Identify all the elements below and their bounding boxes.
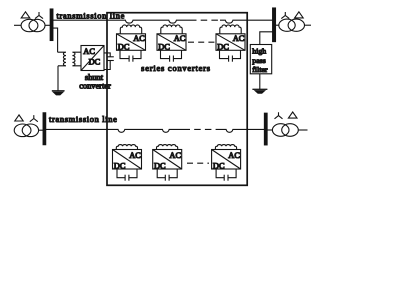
shunt converter DC-link capacitor <box>104 53 114 70</box>
node bottom-left sending bus area <box>14 113 45 145</box>
delta winding symbol (bottom-left) <box>15 115 23 121</box>
svg-text:AC: AC <box>233 34 245 43</box>
delta winding symbol (top-right) <box>295 12 304 18</box>
series converter C2 coupling coil <box>161 25 182 34</box>
transformer T1 (top-left, two overlapping circles) <box>21 19 38 31</box>
high pass filter box <box>250 45 271 75</box>
svg-text:DC: DC <box>217 43 229 52</box>
svg-text:DC: DC <box>89 58 101 67</box>
svg-text:DC: DC <box>213 161 225 170</box>
bus bar (bottom-left) <box>43 113 46 145</box>
wire bus to transformer T2 <box>276 24 280 26</box>
svg-text:transmission line: transmission line <box>49 115 118 124</box>
svg-text:DC: DC <box>154 161 166 170</box>
bus bar (bottom-right) <box>264 113 267 145</box>
svg-text:AC: AC <box>174 34 186 43</box>
series converter C3 AC/DC box <box>216 34 245 52</box>
svg-text:DC: DC <box>114 161 126 170</box>
bus bar (top-left) <box>50 9 53 41</box>
wire bus to transformer T4 <box>267 129 272 131</box>
series converter C3 coupling coil <box>220 25 241 34</box>
wye winding symbol (bottom-left) <box>30 115 38 122</box>
series converter C1 AC/DC box <box>117 34 146 52</box>
wire stub right of transformer T2 <box>305 24 312 26</box>
wire transformer T3 to bus <box>39 129 44 131</box>
series converter C2 AC/DC box <box>157 34 186 52</box>
shunt transformer windings <box>58 52 81 66</box>
wire: bottom transmission line with coupling dips and dashed break <box>46 129 265 132</box>
series converter C2 DC capacitor <box>161 50 182 61</box>
svg-text:filter: filter <box>252 65 268 74</box>
svg-text:pass: pass <box>252 56 265 65</box>
delta winding symbol (bottom-right) <box>288 112 297 118</box>
series converter B1 coupling coil <box>116 145 137 150</box>
svg-text:series converters: series converters <box>141 64 211 73</box>
wire transformer T1 to bus <box>45 24 50 26</box>
bus bar (top-right) <box>273 8 276 42</box>
series converter C3 DC capacitor <box>220 50 241 61</box>
wire: shunt tap from left bus <box>53 28 58 52</box>
svg-text:AC: AC <box>169 151 181 160</box>
dashed continuation between series converters C2 and C3 <box>188 41 215 43</box>
shunt converter U0 AC/DC box <box>81 46 104 71</box>
series converter B2 AC/DC box <box>153 150 182 171</box>
wire stub right of transformer T4 <box>298 129 307 131</box>
node right receiving bus (top) <box>273 8 311 42</box>
svg-text:AC: AC <box>133 34 145 43</box>
transformer T4 (bottom-right, two overlapping circles) <box>272 124 289 137</box>
wire: high pass filter to ground <box>259 74 261 89</box>
svg-text:DC: DC <box>158 43 170 52</box>
series converter B3 AC/DC box <box>212 150 241 171</box>
dashed continuation between series converters B2 and B3 <box>187 162 209 164</box>
transformer T3 (bottom-left, two overlapping circles) <box>14 124 31 137</box>
svg-text:shunt: shunt <box>85 73 104 82</box>
wire: top transmission line with coupling dips and dashed break <box>53 20 273 23</box>
svg-text:high: high <box>252 47 266 56</box>
svg-text:DC: DC <box>118 43 130 52</box>
series converter B2 coupling coil <box>157 145 178 150</box>
svg-text:AC: AC <box>83 47 95 56</box>
wye winding symbol (top-right) <box>281 12 289 19</box>
svg-text:AC: AC <box>129 151 141 160</box>
ground (high pass filter) <box>252 89 267 93</box>
node left sending bus area <box>14 9 53 41</box>
series converter B1 DC capacitor <box>117 169 137 181</box>
wire: shunt transformer to ground <box>57 66 59 91</box>
node bottom-right receiving bus area <box>264 112 307 145</box>
series converter C1 DC capacitor <box>120 50 141 61</box>
DPFC enclosure box <box>107 13 247 186</box>
delta winding symbol (top-left) <box>21 12 30 18</box>
label: shunt converter <box>79 73 111 91</box>
series converter B2 DC capacitor <box>157 169 177 181</box>
svg-text:AC: AC <box>228 151 240 160</box>
series converter B3 coupling coil <box>215 145 236 150</box>
wye winding symbol (bottom-right) <box>275 112 283 119</box>
wire: high pass filter tap to right bus <box>260 32 273 45</box>
transformer T2 (top-right, two overlapping circles) <box>279 19 295 31</box>
wire stub left of top-left transformer <box>14 24 21 26</box>
series converter B3 DC capacitor <box>216 169 236 181</box>
series converter C1 coupling coil <box>120 25 141 34</box>
series converter B1 AC/DC box <box>113 150 142 171</box>
wye winding symbol (top-left) <box>35 12 43 19</box>
ground (shunt transformer) <box>52 91 65 95</box>
